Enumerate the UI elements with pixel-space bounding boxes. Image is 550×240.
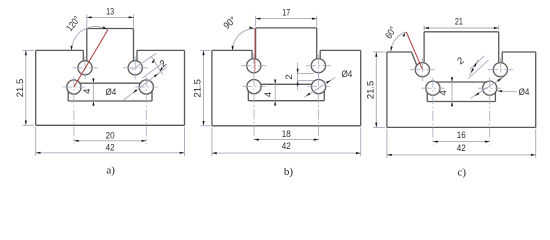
part a lower left hole	[67, 80, 81, 94]
dimension 18 (hole spacing, part b)	[254, 129, 319, 141]
part c upper left hole	[415, 63, 429, 77]
dimension 21.5 (height, part a)	[15, 50, 34, 125]
dimension 4 (pocket depth, part b)	[263, 80, 276, 106]
svg-text:18: 18	[282, 129, 291, 140]
svg-text:4: 4	[438, 89, 449, 95]
part c upper right hole	[493, 63, 507, 77]
part b slot walls	[252, 50, 320, 59]
part b lower hole centerlines	[243, 76, 331, 143]
part a base plate outline	[36, 50, 185, 125]
dimension 42 (overall width, part b)	[212, 127, 361, 156]
caption a)	[106, 165, 115, 177]
dimension 42 (overall width, part c)	[387, 129, 536, 158]
part c lower hole centerlines	[421, 78, 501, 145]
part a upper right hole	[128, 61, 142, 75]
dimension 2 (slot width, part c)	[455, 55, 488, 78]
svg-text:b): b)	[284, 166, 294, 178]
caption c)	[458, 167, 467, 179]
caption b)	[284, 166, 294, 178]
dimension 21.5 (height, part c)	[365, 52, 385, 127]
part c pocket contour	[427, 82, 495, 102]
part b central tab	[256, 28, 317, 59]
svg-text:c): c)	[458, 167, 467, 179]
svg-text:16: 16	[457, 130, 466, 141]
part b base plate outline	[212, 50, 361, 125]
label dia4 with dimension line (part a)	[106, 67, 168, 101]
dimension 21.5 (height, part b)	[193, 50, 211, 125]
part a upper hole centerlines	[73, 56, 148, 79]
dimension 2 (web between holes, part a)	[132, 53, 169, 78]
angle dimension 60 deg arc (part c)	[383, 25, 405, 52]
part c central tab	[424, 32, 499, 63]
dimension 2 (web between holes, part b)	[284, 63, 314, 91]
dimension 4 (pocket depth, part a)	[82, 78, 94, 105]
dimension 20 (hole spacing, part a)	[74, 130, 146, 142]
svg-text:4: 4	[82, 88, 93, 94]
label dia4 with dimension line (part b)	[304, 69, 353, 97]
svg-text:42: 42	[457, 143, 466, 154]
part a upper left hole	[78, 61, 92, 75]
dimension 21 (tab width, part c)	[424, 17, 499, 31]
part b lower right hole	[312, 80, 326, 94]
part c base plate outline	[387, 52, 536, 127]
svg-text:42: 42	[282, 141, 291, 152]
svg-text:4: 4	[263, 91, 274, 97]
part b upper hole centerlines	[241, 54, 331, 77]
part a slot walls	[83, 50, 137, 61]
svg-text:17: 17	[282, 7, 290, 18]
part c lower right hole	[483, 81, 497, 95]
part c lower left hole	[426, 81, 440, 95]
red slot-axis line at 120 deg (part a)	[74, 30, 108, 87]
part b upper right hole	[311, 59, 325, 73]
red slot-axis line at 90 deg (part b)	[254, 28, 256, 71]
svg-text:21: 21	[455, 17, 463, 28]
part a central tab	[87, 29, 134, 61]
svg-text:Ø4: Ø4	[342, 69, 353, 80]
dimension 13 (tab width, part a)	[87, 7, 134, 27]
part a lower hole centerlines	[62, 77, 157, 145]
dimension 16 (hole spacing, part c)	[433, 130, 490, 143]
angle dimension 120 deg arc (part a)	[64, 14, 107, 50]
part b upper left hole	[247, 59, 261, 73]
svg-text:13: 13	[106, 7, 114, 18]
part b lower left hole	[247, 80, 261, 94]
svg-text:21.5: 21.5	[193, 79, 204, 98]
part a lower right hole	[139, 80, 153, 94]
svg-text:2: 2	[284, 74, 295, 79]
svg-text:42: 42	[106, 143, 115, 154]
svg-text:21.5: 21.5	[365, 81, 376, 100]
dimension 4 (pocket depth, part c)	[438, 77, 453, 106]
part b pocket contour	[248, 84, 324, 100]
svg-text:21.5: 21.5	[15, 79, 26, 98]
red slot-axis line at 60 deg (part c)	[406, 32, 422, 69]
part c slot walls	[412, 52, 503, 65]
dimension 42 (overall width, part a)	[36, 127, 185, 156]
label dia4 with dimension line and leader (part c)	[471, 77, 530, 99]
svg-text:20: 20	[106, 130, 115, 141]
part c upper hole centerlines	[410, 58, 513, 81]
svg-text:a): a)	[106, 165, 115, 177]
dimension 17 (tab width, part b)	[256, 7, 317, 26]
svg-text:Ø4: Ø4	[106, 87, 117, 98]
part a pocket contour	[68, 83, 152, 101]
svg-text:Ø4: Ø4	[519, 87, 530, 98]
angle dimension 90 deg arc (part b)	[222, 15, 255, 51]
